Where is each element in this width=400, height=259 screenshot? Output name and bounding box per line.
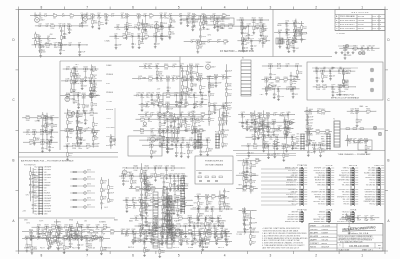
resistor R378 [46, 140, 48, 144]
resistor R521 [273, 145, 277, 147]
wire [105, 16, 107, 20]
resistor R402 [140, 130, 144, 132]
svg-text:R565: R565 [366, 109, 370, 111]
wire [237, 19, 241, 21]
wire [44, 131, 50, 133]
svg-text:R587: R587 [45, 225, 49, 227]
capacitor C211 [215, 82, 218, 84]
wire [308, 144, 312, 146]
node [294, 39, 295, 40]
sub box [358, 140, 372, 150]
wire [138, 44, 140, 46]
svg-text:R207: R207 [292, 81, 296, 83]
diode D5 [62, 15, 64, 17]
ground [132, 46, 134, 47]
svg-text:22UF: 22UF [331, 89, 335, 91]
svg-text:ORG/WHT: ORG/WHT [44, 177, 52, 179]
svg-text:GRY/WHT B+2: GRY/WHT B+2 [365, 194, 376, 196]
svg-text:R.S. 1 0 4: R.S. 1 0 4 [373, 28, 381, 30]
ground [57, 247, 59, 248]
wire [207, 76, 215, 78]
wire [139, 94, 142, 96]
capacitor C31 [180, 19, 183, 21]
ground [241, 31, 243, 32]
capacitor C655 [168, 175, 170, 178]
resistor R438 [194, 139, 196, 143]
svg-text:R226: R226 [210, 93, 214, 95]
wire [67, 141, 69, 143]
wire [147, 103, 154, 105]
ground [175, 154, 177, 155]
resistor R579 [101, 188, 103, 192]
svg-text:R855: R855 [168, 229, 172, 231]
resistor R273 [190, 70, 192, 74]
svg-text:ORG/WHT: ORG/WHT [44, 198, 52, 200]
resistor R176 [343, 79, 345, 83]
node [286, 23, 287, 24]
ground [286, 134, 288, 135]
svg-text:R589: R589 [51, 225, 55, 227]
wire [185, 127, 187, 129]
svg-text:D144: D144 [287, 37, 291, 39]
svg-text:R67: R67 [37, 41, 40, 43]
tube V264 [89, 93, 94, 98]
svg-text:R878: R878 [205, 194, 209, 196]
svg-text:R915: R915 [242, 208, 246, 210]
svg-text:R340: R340 [69, 129, 73, 131]
diode D515 [247, 145, 249, 147]
capacitor C222 [225, 102, 228, 104]
node [169, 27, 170, 28]
svg-text:R253: R253 [93, 84, 97, 86]
wire [144, 130, 151, 132]
svg-text:BLU/BLK: BLU/BLK [44, 193, 51, 195]
node [167, 140, 168, 141]
LED D577 [84, 206, 86, 208]
svg-text:.022: .022 [35, 181, 38, 183]
svg-text:22UF: 22UF [335, 92, 339, 94]
capacitor C172 [329, 70, 331, 73]
svg-text:C597: C597 [86, 225, 90, 227]
wire [125, 35, 127, 37]
wire [199, 15, 201, 22]
svg-text:R E V I S I O N S: R E V I S I O N S [352, 12, 369, 14]
svg-text:.022: .022 [121, 233, 124, 235]
svg-text:.001: .001 [220, 236, 223, 238]
resistor R570 [365, 146, 367, 150]
wire [288, 121, 293, 123]
svg-text:D57: D57 [69, 42, 72, 44]
diode D300 [175, 94, 177, 96]
wire [309, 132, 311, 140]
wire [207, 152, 209, 154]
node [71, 227, 72, 228]
wire [86, 44, 88, 46]
svg-text:C913: C913 [370, 215, 374, 217]
wire [287, 22, 293, 24]
capacitor C224 [225, 115, 228, 117]
svg-text:D628: D628 [42, 235, 46, 237]
capacitor C166 [367, 47, 369, 50]
ground [154, 45, 156, 46]
svg-text:R39: R39 [222, 13, 225, 15]
wire [288, 78, 294, 80]
wire [284, 117, 286, 121]
resistor R426 [186, 144, 190, 146]
svg-text:R286: R286 [193, 84, 197, 86]
wire [159, 114, 164, 116]
wire [88, 226, 96, 228]
svg-text:C292: C292 [140, 93, 144, 95]
wire [137, 167, 145, 169]
resistor R606 [53, 238, 57, 240]
capacitor C485 [286, 113, 288, 116]
svg-text:B: B [12, 159, 14, 163]
capacitor C536 [262, 134, 265, 136]
svg-text:.1: .1 [87, 120, 88, 122]
ground [279, 45, 281, 46]
wire [50, 237, 53, 239]
wire [141, 107, 143, 109]
wire [61, 80, 66, 82]
svg-text:.0047: .0047 [147, 206, 151, 208]
svg-text:R779: R779 [220, 224, 224, 226]
capacitor C220 [225, 88, 228, 90]
wire [194, 123, 196, 129]
capacitor C93 [141, 37, 144, 39]
svg-text:CH 2: CH 2 [26, 195, 30, 197]
resistor R229 [208, 118, 210, 122]
wire [190, 114, 193, 116]
svg-text:R13: R13 [100, 22, 103, 24]
capacitor C391 [166, 118, 168, 121]
capacitor C68 [116, 26, 118, 29]
wire [77, 110, 79, 114]
svg-text:R434: R434 [161, 136, 165, 138]
resistor R14 [104, 15, 108, 17]
capacitor C133 [241, 43, 244, 45]
diode D42 [39, 25, 41, 27]
resistor R546 [326, 131, 330, 133]
wire [306, 121, 308, 125]
wire [222, 124, 224, 130]
ground [190, 76, 192, 77]
svg-text:R750: R750 [167, 216, 171, 218]
wire [167, 144, 175, 146]
svg-text:C844: C844 [121, 229, 125, 231]
capacitor C113 [199, 35, 202, 37]
resistor R24 [149, 15, 153, 17]
capacitor C610 [69, 242, 72, 244]
svg-text:U154: U154 [293, 39, 297, 41]
ground [347, 51, 349, 52]
node [317, 71, 318, 72]
wire [316, 71, 318, 78]
wire [97, 145, 99, 147]
wire [142, 19, 144, 23]
resistor R494 [273, 128, 275, 132]
svg-text:D642: D642 [159, 166, 163, 168]
svg-text:R.SMITH: R.SMITH [322, 229, 328, 231]
capacitor C56 [59, 49, 62, 51]
wire [292, 145, 294, 147]
svg-text:5: 5 [178, 5, 180, 9]
wire [138, 36, 140, 41]
wire [375, 110, 378, 112]
svg-text:D576: D576 [87, 197, 91, 199]
resistor R534 [263, 124, 265, 128]
node [116, 36, 117, 37]
svg-text:.1: .1 [84, 115, 85, 117]
svg-text:C58: C58 [78, 42, 81, 44]
svg-text:RECT B: RECT B [173, 247, 179, 249]
capacitor C312 [181, 70, 184, 72]
wire [193, 95, 195, 104]
svg-text:R262: R262 [73, 90, 77, 92]
svg-text:D99: D99 [198, 17, 201, 19]
svg-text:.1: .1 [103, 203, 104, 205]
svg-text:3K3: 3K3 [92, 240, 95, 242]
capacitor C143 [299, 31, 301, 34]
svg-text:R268: R268 [158, 72, 162, 74]
svg-text:R807: R807 [161, 250, 165, 252]
node [106, 15, 107, 16]
wire [64, 25, 67, 27]
wire [152, 26, 160, 28]
wire [34, 38, 36, 41]
wire [163, 144, 167, 146]
resistor R258 [73, 92, 75, 96]
wire [261, 122, 263, 125]
node [357, 111, 358, 112]
svg-text:D230: D230 [66, 67, 70, 69]
ground [81, 238, 83, 239]
capacitor C414 [193, 130, 195, 133]
wire [193, 114, 201, 116]
svg-text:#7 PCB: #7 PCB [350, 210, 357, 212]
resistor R340 [67, 128, 69, 132]
svg-text:C54: C54 [54, 42, 57, 44]
capacitor C102 [216, 18, 218, 21]
resistor R453 [201, 114, 205, 116]
ground [286, 46, 288, 47]
wire [152, 77, 156, 79]
svg-text:RET: RET [198, 125, 201, 127]
wire [179, 118, 185, 120]
wire [27, 237, 30, 239]
svg-text:47UF: 47UF [97, 17, 101, 19]
svg-text:R208: R208 [292, 87, 296, 89]
wire [343, 83, 345, 85]
wire [70, 84, 72, 90]
resistor R506 [262, 136, 266, 138]
node [263, 137, 264, 138]
ground [261, 127, 263, 128]
svg-text:D50: D50 [79, 23, 82, 25]
wire [140, 77, 149, 79]
wire [271, 136, 275, 138]
svg-text:.047: .047 [32, 185, 35, 187]
svg-text:R70: R70 [128, 32, 131, 34]
svg-text:3K3: 3K3 [321, 73, 324, 75]
wire [68, 231, 70, 237]
node [242, 114, 243, 115]
ground [335, 51, 337, 52]
wire [87, 237, 90, 239]
wire [208, 118, 211, 120]
resistor R268 [156, 71, 158, 75]
wire [262, 45, 264, 48]
wire [257, 145, 263, 147]
wire [139, 103, 147, 105]
wire [363, 47, 368, 49]
wire [262, 78, 265, 80]
wire [34, 237, 43, 239]
svg-text:47UF: 47UF [148, 121, 152, 123]
svg-text:C27: C27 [164, 13, 167, 15]
ground [199, 91, 201, 92]
wire [46, 125, 48, 131]
svg-text:.1: .1 [150, 97, 151, 99]
wire [248, 26, 250, 35]
svg-text:R877: R877 [200, 202, 204, 204]
svg-text:GRN CH2 SEL: GRN CH2 SEL [288, 189, 298, 191]
wire [359, 110, 367, 112]
resistor R208 [290, 86, 292, 90]
svg-text:.047: .047 [172, 80, 175, 82]
node [322, 71, 323, 72]
svg-text:R377: R377 [48, 132, 52, 134]
wire [92, 126, 94, 129]
ground [223, 115, 225, 116]
wire [141, 15, 144, 17]
wire [223, 106, 225, 113]
svg-text:.001: .001 [286, 128, 289, 130]
wire [263, 132, 265, 134]
wire [44, 237, 52, 239]
capacitor C522 [274, 152, 277, 154]
wire [49, 38, 54, 40]
svg-text:250PF: 250PF [95, 143, 100, 145]
wire [46, 227, 48, 232]
resistor R38 [214, 21, 216, 25]
resistor R126 [263, 40, 267, 42]
resistor R184 [345, 86, 349, 88]
svg-text:.047: .047 [296, 48, 299, 50]
capacitor C153 [300, 38, 303, 40]
svg-text:B+ 410V: B+ 410V [295, 31, 302, 33]
capacitor C430 [200, 150, 203, 152]
svg-text:D573: D573 [87, 176, 91, 178]
wire [155, 32, 157, 36]
svg-text:1K5: 1K5 [84, 221, 87, 223]
wire [355, 140, 360, 142]
svg-text:R132: R132 [244, 38, 248, 40]
revisions table [335, 10, 385, 31]
resistor R119 [259, 19, 263, 21]
resistor R437 [194, 129, 196, 133]
wire [100, 80, 102, 82]
svg-text:.0047: .0047 [221, 124, 225, 126]
svg-text:R645: R645 [171, 166, 175, 168]
wire [205, 18, 211, 20]
resistor R357 [44, 117, 48, 119]
wire [31, 250, 33, 252]
diode D22 [144, 15, 146, 17]
svg-text:3K3: 3K3 [208, 203, 211, 205]
node [91, 95, 92, 96]
wire [169, 27, 171, 31]
wire [274, 31, 278, 33]
resistor R151 [301, 26, 303, 30]
svg-text:D575: D575 [87, 190, 91, 192]
wire [196, 170, 232, 172]
svg-text:BLU/BLK HTR: BLU/BLK HTR [288, 214, 299, 216]
resistor R609 [68, 238, 72, 240]
wire [263, 121, 265, 124]
capacitor C62 [60, 43, 63, 45]
capacitor C78 [114, 35, 116, 38]
svg-text:R879: R879 [208, 202, 212, 204]
svg-text:YEL B+2: YEL B+2 [369, 204, 375, 206]
svg-text:SW 1: SW 1 [34, 169, 38, 171]
svg-text:.001: .001 [310, 152, 313, 154]
wire [70, 70, 72, 73]
resistor R69 [125, 26, 129, 28]
ground [180, 101, 182, 102]
wire [347, 145, 349, 147]
svg-text:C319: C319 [84, 110, 88, 112]
capacitor C58 [78, 44, 80, 47]
diode D483 [274, 114, 276, 116]
wire [214, 16, 216, 21]
svg-text:47UF: 47UF [309, 141, 313, 143]
wire [166, 131, 168, 138]
node [167, 119, 168, 120]
svg-text:250PF: 250PF [148, 210, 153, 212]
node [34, 132, 35, 133]
svg-text:.022: .022 [47, 40, 50, 42]
svg-text:C407: C407 [166, 128, 170, 130]
node [155, 168, 156, 169]
zone tick [384, 7, 386, 10]
svg-text:3K3: 3K3 [224, 145, 227, 147]
wire [60, 46, 62, 50]
svg-text:R593: R593 [69, 225, 73, 227]
svg-text:.1: .1 [279, 145, 280, 147]
resistor R591 [58, 231, 60, 235]
svg-text:RET: RET [365, 220, 368, 222]
svg-text:BRN/BLK GND: BRN/BLK GND [315, 196, 326, 198]
wire [242, 115, 244, 123]
svg-text:D283: D283 [176, 76, 180, 78]
svg-text:3K3: 3K3 [171, 170, 174, 172]
resistor R416 [200, 130, 204, 132]
wire [286, 23, 288, 29]
wire [260, 40, 263, 42]
capacitor C657 [173, 175, 175, 178]
svg-text:2K2: 2K2 [75, 75, 78, 77]
diode D99 [199, 18, 201, 20]
zone tick [338, 7, 340, 10]
wire [267, 128, 269, 131]
wire [243, 41, 245, 48]
svg-text:.001: .001 [253, 186, 256, 188]
relay K1 [241, 60, 251, 96]
wire [91, 95, 93, 102]
wire [107, 200, 109, 203]
wire [260, 32, 262, 34]
